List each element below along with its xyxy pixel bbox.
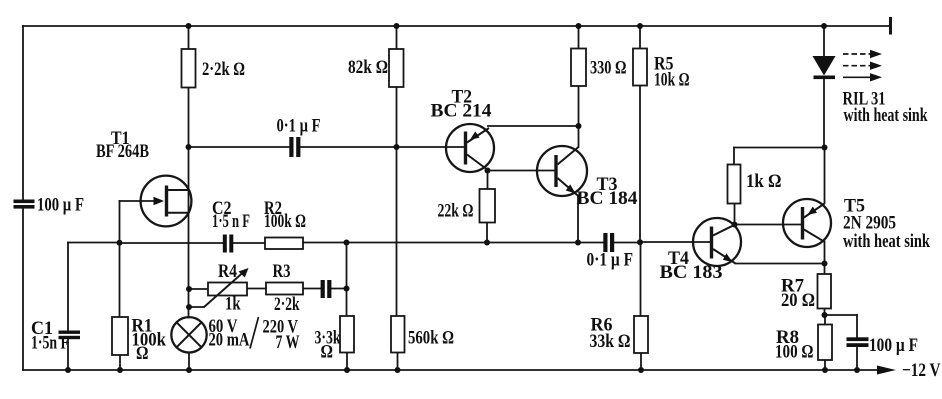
wire left rail lower <box>22 209 24 371</box>
node bottom rail / 560k <box>395 367 401 373</box>
transistor T3 BC184 (NPN) <box>537 146 587 196</box>
svg-text:20 Ω: 20 Ω <box>781 290 815 311</box>
wire 1k node down to T5 emitter <box>824 148 826 204</box>
node feedback 3.3k <box>344 240 350 246</box>
transistor T4 BC183 (NPN) <box>693 218 741 266</box>
svg-text:Ω: Ω <box>321 342 334 363</box>
wire R4 to R3 <box>247 288 266 290</box>
wire lamp bottom lead <box>188 353 190 371</box>
svg-text:0·1 µ F: 0·1 µ F <box>277 116 321 137</box>
node 22k / signal rail <box>484 240 490 246</box>
capacitor C1 1.5nF plate top <box>59 331 81 334</box>
wire gate drop to input node <box>119 201 121 243</box>
wire 100uF bottom lead <box>856 348 858 370</box>
wire T3 emitter down to signal rail <box>577 196 579 243</box>
svg-text:82k Ω: 82k Ω <box>348 57 388 78</box>
node R5 R6 T4 base <box>637 239 643 245</box>
wire R4 left lead <box>189 288 208 290</box>
wire T2 emitter to 330R node <box>488 125 579 127</box>
svg-text:with heat sink: with heat sink <box>843 231 930 252</box>
svg-text:33k Ω: 33k Ω <box>590 331 631 352</box>
wire R5/R6 node to T4 base <box>640 241 712 243</box>
lamp 60V 20mA / 220V 7W <box>171 317 206 352</box>
wire T4 collector node to T5 base <box>735 224 803 226</box>
svg-text:BF 264B: BF 264B <box>96 141 149 162</box>
svg-text:100k Ω: 100k Ω <box>264 211 306 232</box>
resistor R7 20 <box>818 274 832 309</box>
capacitor 100uF (left rail) plate bottom <box>14 205 35 209</box>
resistor R3 2.2k (horizontal) <box>266 283 303 295</box>
node input C1/R1/gate <box>117 240 123 246</box>
resistor R8 100 <box>818 325 832 361</box>
wire LED anode lead <box>823 26 825 56</box>
resistor 82k <box>389 49 404 87</box>
svg-text:20 mA: 20 mA <box>209 330 250 351</box>
wire R1 bottom lead <box>119 355 121 370</box>
wire R1 top lead <box>119 243 121 318</box>
wire R2 to 3.3k node and 22k node <box>303 242 578 244</box>
svg-text:100 µ F: 100 µ F <box>37 195 84 216</box>
svg-text:R4: R4 <box>218 261 237 282</box>
wire input node to C1 branch <box>68 242 120 244</box>
wire 82k top lead <box>396 26 398 49</box>
wire bottom -12V rail <box>23 369 878 371</box>
capacitor series (after R3) plate right <box>327 280 331 298</box>
svg-text:2·2k: 2·2k <box>274 294 300 315</box>
wire C1 top lead <box>67 243 69 331</box>
node T4 emitter / T5 collector / R7 <box>822 261 828 267</box>
wire 0.1uF coupling left segment <box>189 146 290 148</box>
wire 22k top lead <box>487 171 489 190</box>
node T4 collector / 1k / T5 base <box>732 222 738 228</box>
svg-text:2·2k Ω: 2·2k Ω <box>202 59 245 80</box>
capacitor series (after R3) plate left <box>321 280 325 298</box>
svg-text:7 W: 7 W <box>276 332 300 353</box>
capacitor 100uF (output) plate top <box>847 337 869 341</box>
node LED / 1k / T5 emitter <box>822 145 828 151</box>
svg-text:560k Ω: 560k Ω <box>408 328 454 349</box>
capacitor 0.1uF input plate right <box>296 137 300 157</box>
node top rail / 82k <box>394 23 400 29</box>
wire gate line to T1 <box>120 200 158 202</box>
node T1 drain / coupling cap <box>186 144 192 150</box>
wire left rail upper <box>22 26 24 199</box>
svg-text:330 Ω: 330 Ω <box>590 58 627 79</box>
capacitor 100uF (output) plate bottom <box>847 343 869 347</box>
node bottom rail / R6 <box>638 367 644 373</box>
wire 3.3k bottom lead <box>346 353 348 371</box>
capacitor 0.1uF output plate right <box>610 233 614 252</box>
node bottom rail / C1 <box>65 367 71 373</box>
capacitor C2 1.5nF plate right <box>229 235 233 253</box>
capacitor 0.1uF output plate left <box>603 233 607 252</box>
resistor 22k <box>480 189 496 223</box>
node bottom rail / R8 <box>822 367 828 373</box>
wire C1 bottom lead <box>67 339 69 370</box>
wire T5 collector down to node <box>824 242 826 264</box>
resistor 560k <box>391 316 405 353</box>
wire 0.1uF out cap to R5/R6 node <box>615 242 641 244</box>
svg-text:R3: R3 <box>273 261 291 282</box>
wire R4 wiper horizontal stub <box>189 306 204 308</box>
node R7 / R8 / 100uF <box>822 312 828 318</box>
node bottom rail / 3.3k <box>344 367 350 373</box>
node top rail / R5 <box>637 23 643 29</box>
wire series cap to 3.3k node <box>331 288 347 290</box>
node R4 wiper <box>186 304 192 310</box>
wire 22k bottom lead <box>486 223 488 243</box>
node top rail / 330 <box>576 23 582 29</box>
capacitor C1 1.5nF plate bottom <box>59 336 81 339</box>
wire T2 collector to T3 base <box>488 170 555 172</box>
resistor R5 10k <box>633 49 647 86</box>
resistor 330 <box>571 49 586 87</box>
wire node to T3 collector <box>578 126 580 147</box>
wire 2.2k bottom lead down through T1 to lamp <box>188 88 190 318</box>
node top rail / 2.2k <box>186 23 192 29</box>
wire 100uF top lead <box>856 315 858 337</box>
node bottom rail / 100uF <box>854 367 860 373</box>
wire T4 emitter to T5 collector node <box>736 263 825 265</box>
svg-text:100 µ F: 100 µ F <box>869 335 918 356</box>
svg-text:10k Ω: 10k Ω <box>654 70 690 91</box>
wire R4 wiper arrowhead <box>239 268 249 278</box>
wire R3 to series cap <box>303 288 321 290</box>
wire R7/R8 node to 100uF <box>825 314 858 316</box>
svg-text:1k Ω: 1k Ω <box>746 171 782 192</box>
svg-text:1k: 1k <box>225 294 241 315</box>
transistor T5 2N2905 (PNP) <box>783 199 831 247</box>
resistor 1k (driver) <box>728 165 741 204</box>
wire R6 top lead <box>640 243 642 317</box>
wire R7 top lead <box>824 264 826 275</box>
svg-text:0·1 µ F: 0·1 µ F <box>587 250 634 271</box>
wire 3.3k node vertical <box>346 243 348 317</box>
node 330 / T2 emitter / T3 collector <box>576 123 582 129</box>
svg-text:100 Ω: 100 Ω <box>775 342 814 363</box>
svg-text:1·5 n F: 1·5 n F <box>212 211 250 232</box>
LED arrowhead 3 <box>870 73 882 81</box>
resistor R2 100k (horizontal) <box>265 238 303 250</box>
node R4 left <box>186 286 192 292</box>
wire R5 top lead <box>639 26 641 49</box>
svg-text:Ω: Ω <box>136 343 149 364</box>
resistor 2.2k (top left) <box>182 49 196 88</box>
wire R8 bottom lead <box>824 360 826 370</box>
transistor T2 BC214 (PNP) <box>446 124 494 172</box>
svg-text:with heat sink: with heat sink <box>844 105 928 126</box>
node bottom rail / R1 <box>117 367 123 373</box>
node bottom rail / lamp <box>186 367 192 373</box>
LED arrowhead 2 <box>870 62 882 70</box>
wire top rail end bar <box>889 19 892 34</box>
wire signal rail to 0.1uF out cap <box>578 242 604 244</box>
svg-text:BC 214: BC 214 <box>431 101 492 122</box>
wire 1k top lead <box>733 148 735 165</box>
node series cap / 3.3k <box>344 286 350 292</box>
component value and designator labels <box>31 54 941 382</box>
wire R8 top lead <box>824 315 826 325</box>
LED arrowhead 1 <box>870 50 882 58</box>
svg-text:−12 V: −12 V <box>902 360 941 381</box>
node top rail / LED <box>821 23 827 29</box>
lamp rating slash <box>250 317 259 349</box>
svg-text:22k Ω: 22k Ω <box>438 201 474 222</box>
wire 330R bottom lead to node <box>578 86 580 126</box>
node T3 emitter / signal rail <box>575 240 581 246</box>
wire R7 bottom lead <box>824 309 826 316</box>
node 82k / T2 base <box>394 144 400 150</box>
wire 0.1uF coupling right segment to T2 base <box>301 146 465 148</box>
svg-text:BC 184: BC 184 <box>577 188 638 209</box>
wire top supply rail <box>23 25 890 27</box>
wire 1k top to LED node <box>734 147 825 149</box>
node T2 collector / T3 base / 22k <box>485 168 491 174</box>
transistor T1 BF264B (JFET) <box>141 176 192 227</box>
diode RIL31 LED triangle <box>813 56 836 76</box>
capacitor 100uF (left rail) plate top <box>14 200 35 204</box>
wire bottom rail arrowhead (-12V) <box>877 366 896 375</box>
wire 560k bottom lead <box>397 353 399 371</box>
svg-text:BC 183: BC 183 <box>660 262 723 283</box>
resistor R4 1k (horizontal body) <box>208 283 247 296</box>
svg-text:1·5n F: 1·5n F <box>31 333 69 354</box>
resistor 3.3k <box>340 316 354 353</box>
wire signal rail C2 segment <box>120 242 224 244</box>
diode RIL31 cathode bar <box>814 76 836 80</box>
resistor R6 33k <box>634 316 648 353</box>
capacitor C2 1.5nF plate left <box>223 235 227 253</box>
wire R5 bottom lead to signal rail <box>639 86 641 243</box>
wire C2 to R2 <box>233 242 265 244</box>
LED radiation arrows <box>843 54 872 77</box>
wire 2.2k top lead <box>188 26 190 49</box>
wire T4 collector node up to 1k <box>734 204 736 225</box>
wire R6 bottom lead <box>640 353 642 370</box>
wire R4 wiper diagonal <box>204 273 244 308</box>
wire 330R top lead <box>578 26 580 49</box>
wire LED cathode down to 1k node <box>823 80 825 148</box>
capacitor 0.1uF input plate left <box>289 137 293 157</box>
resistor R1 100k <box>112 317 128 355</box>
wire 82k bottom lead down to 560k <box>396 87 398 316</box>
